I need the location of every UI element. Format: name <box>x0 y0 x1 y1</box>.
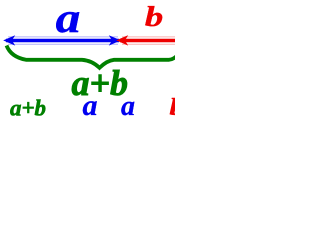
node right arrowhead of a (blue, pointing right) <box>109 35 121 45</box>
svg-text:b: b <box>145 1 164 33</box>
svg-text:b: b <box>170 94 176 121</box>
wire red shaft halo top <box>122 36 175 38</box>
svg-text:a: a <box>56 0 81 41</box>
wire blue shaft halo top <box>8 36 118 38</box>
wire blue shaft (segment a) <box>6 39 119 42</box>
wire red shaft (segment b) <box>120 39 175 42</box>
node left arrowhead of b (red, pointing left) <box>116 35 128 45</box>
svg-text:a: a <box>121 91 135 122</box>
svg-text:a+b: a+b <box>10 96 46 121</box>
wire blue shaft halo bottom <box>8 43 118 45</box>
svg-text:a+b: a+b <box>72 63 129 103</box>
brace underbrace a+b (green) <box>7 46 179 68</box>
wire red shaft halo bottom <box>122 43 175 45</box>
svg-text:a: a <box>83 89 98 122</box>
node left arrowhead (blue, pointing left) <box>3 35 15 45</box>
